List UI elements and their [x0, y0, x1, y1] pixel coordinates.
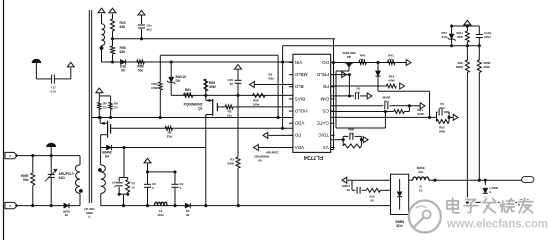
- svg-text:VDA: VDA: [294, 145, 304, 150]
- svg-text:GATE: GATE: [317, 121, 329, 126]
- svg-text:100k: 100k: [253, 102, 260, 106]
- svg-text:LL: LL: [88, 215, 92, 219]
- svg-text:E0e: E0e: [167, 134, 173, 138]
- svg-text:h5W: h5W: [151, 86, 158, 90]
- svg-text:90: 90: [230, 82, 234, 86]
- svg-text:DO: DO: [322, 60, 329, 65]
- svg-text:E9W: E9W: [227, 161, 234, 165]
- svg-text:40: 40: [349, 131, 353, 135]
- svg-text:40e: 40e: [388, 57, 393, 61]
- svg-text:E9e: E9e: [269, 76, 275, 80]
- svg-text:40e: 40e: [360, 57, 365, 61]
- svg-text:A: A: [9, 204, 11, 208]
- svg-text:TDIC: TDIC: [318, 133, 329, 138]
- svg-text:3V9: 3V9: [442, 35, 448, 39]
- svg-text:90: 90: [266, 154, 270, 158]
- svg-text:95: 95: [370, 198, 374, 202]
- svg-text:A: A: [9, 154, 11, 158]
- svg-text:E0: E0: [114, 105, 118, 109]
- svg-text:E2: E2: [419, 188, 423, 192]
- svg-text:D9: D9: [176, 79, 180, 83]
- svg-text:63k: 63k: [120, 50, 126, 54]
- svg-text:90W: 90W: [418, 112, 424, 116]
- svg-text:VO8: VO8: [396, 224, 403, 228]
- svg-text:40W: 40W: [388, 78, 394, 82]
- svg-text:Q1: Q1: [198, 106, 203, 110]
- svg-text:BLD: BLD: [294, 84, 304, 89]
- svg-text:63k: 63k: [120, 25, 126, 29]
- svg-text:DIM: DIM: [320, 96, 329, 101]
- svg-text:9k3: 9k3: [439, 106, 444, 110]
- svg-text:90e: 90e: [418, 170, 423, 174]
- svg-text:VDD: VDD: [294, 121, 304, 126]
- svg-text:www.elecfans.com: www.elecfans.com: [446, 217, 548, 231]
- svg-text:94Ω: 94Ω: [59, 176, 66, 180]
- svg-text:FRLD: FRLD: [316, 72, 329, 77]
- svg-text:40W: 40W: [209, 85, 217, 89]
- svg-text:00W: 00W: [439, 129, 445, 133]
- svg-text:FL7734: FL7734: [303, 154, 323, 160]
- svg-text:100n: 100n: [484, 35, 491, 39]
- svg-text:90: 90: [65, 213, 69, 217]
- svg-text:90: 90: [258, 158, 262, 162]
- svg-text:6k0: 6k0: [384, 99, 389, 103]
- svg-text:VIN: VIN: [295, 60, 303, 65]
- svg-text:90e: 90e: [23, 178, 29, 182]
- svg-text:90W: 90W: [484, 65, 490, 69]
- svg-text:MBLD: MBLD: [294, 72, 307, 77]
- svg-text:CS: CS: [323, 108, 329, 113]
- svg-text:h0: h0: [356, 90, 360, 94]
- svg-text:90: 90: [121, 68, 125, 72]
- svg-text:FB: FB: [323, 84, 329, 89]
- svg-text:BIAS: BIAS: [295, 96, 305, 101]
- svg-text:90: 90: [347, 188, 351, 192]
- svg-text:D4: D4: [105, 154, 109, 158]
- svg-text:MB6S: MB6S: [395, 220, 404, 224]
- svg-text:90: 90: [186, 213, 190, 217]
- svg-text:4.7n: 4.7n: [50, 89, 56, 93]
- svg-text:E0: E0: [103, 105, 107, 109]
- svg-text:100u: 100u: [157, 213, 164, 217]
- svg-text:M3W: M3W: [456, 65, 463, 69]
- svg-text:J2W: J2W: [457, 35, 463, 39]
- svg-text:10: 10: [132, 185, 136, 189]
- svg-text:6k3: 6k3: [147, 27, 152, 31]
- svg-text:40W: 40W: [185, 92, 193, 96]
- svg-text:50e: 50e: [138, 68, 144, 72]
- svg-text:PD: PD: [294, 133, 301, 138]
- svg-text:HOLD: HOLD: [294, 108, 307, 113]
- svg-text:51e: 51e: [227, 113, 232, 117]
- svg-text:V3: V3: [323, 145, 329, 150]
